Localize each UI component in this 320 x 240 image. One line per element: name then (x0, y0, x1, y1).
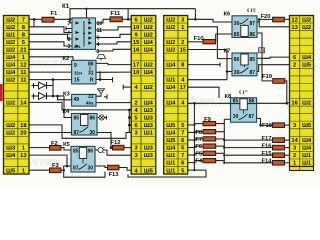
svg-text:Ш4: Ш4 (144, 70, 154, 76)
svg-text:Ш2: Ш2 (144, 32, 153, 38)
svg-text:Ш4: Ш4 (6, 70, 16, 76)
svg-text:F3: F3 (52, 163, 60, 169)
svg-text:Ш4: Ш4 (166, 85, 176, 91)
svg-text:Ш4: Ш4 (302, 55, 312, 61)
svg-text:12: 12 (20, 63, 26, 69)
svg-text:9: 9 (97, 36, 100, 42)
svg-text:85: 85 (73, 148, 79, 154)
svg-text:F6: F6 (195, 144, 203, 150)
svg-text:Ш2: Ш2 (302, 17, 311, 23)
svg-text:7: 7 (68, 21, 71, 27)
svg-text:1: 1 (68, 31, 71, 37)
svg-text:31н: 31н (74, 71, 82, 76)
svg-text:Ш5: Ш5 (302, 123, 312, 129)
svg-text:Ш3: Ш3 (144, 146, 154, 152)
svg-text:Ш3: Ш3 (144, 108, 154, 114)
svg-text:17: 17 (133, 63, 139, 69)
svg-text:85: 85 (249, 57, 255, 63)
svg-text:Ш2: Ш2 (302, 100, 311, 106)
svg-text:F11: F11 (111, 11, 121, 17)
svg-text:Ш2: Ш2 (144, 17, 153, 23)
svg-text:К3: К3 (63, 91, 71, 97)
svg-text:30: 30 (234, 70, 240, 76)
svg-text:Ш2: Ш2 (166, 25, 175, 31)
svg-text:87: 87 (73, 165, 79, 171)
svg-text:7: 7 (181, 153, 184, 159)
svg-text:30: 30 (89, 130, 95, 136)
svg-text:F10: F10 (194, 36, 204, 42)
svg-text:Ш2: Ш2 (166, 47, 175, 53)
svg-text:13: 13 (20, 153, 27, 159)
svg-text:30: 30 (234, 21, 240, 27)
svg-text:Ш1: Ш1 (166, 78, 176, 84)
svg-text:Ш4: Ш4 (6, 55, 16, 61)
svg-text:16: 16 (133, 47, 140, 53)
svg-text:12: 12 (291, 17, 297, 23)
svg-text:30: 30 (87, 165, 93, 171)
svg-text:К6: К6 (224, 11, 232, 17)
svg-text:Ш3: Ш3 (6, 146, 16, 152)
svg-text:86: 86 (249, 32, 255, 38)
svg-text:Ш4: Ш4 (144, 100, 154, 106)
svg-text:К5: К5 (63, 142, 71, 148)
svg-text:2: 2 (181, 40, 184, 46)
svg-text:7: 7 (181, 131, 184, 137)
svg-text:3: 3 (97, 49, 100, 55)
svg-text:F9: F9 (204, 117, 212, 123)
svg-text:10: 10 (97, 21, 103, 27)
svg-text:К7: К7 (224, 49, 231, 55)
svg-text:Ш2: Ш2 (6, 40, 15, 46)
svg-text:2: 2 (134, 100, 137, 106)
svg-text:20: 20 (20, 131, 26, 137)
svg-text:Ш2: Ш2 (144, 63, 153, 69)
svg-text:К8: К8 (225, 94, 233, 100)
svg-text:85: 85 (74, 115, 80, 121)
svg-text:Ш4: Ш4 (6, 63, 16, 69)
svg-text:87: 87 (249, 70, 255, 76)
svg-text:F12: F12 (111, 140, 121, 146)
svg-text:Ш4: Ш4 (6, 153, 16, 159)
svg-text:31: 31 (88, 70, 94, 76)
svg-text:F15: F15 (262, 151, 273, 157)
svg-text:F1: F1 (51, 11, 59, 17)
svg-text:Ш2: Ш2 (144, 85, 153, 91)
svg-text:87: 87 (249, 21, 255, 27)
svg-text:86: 86 (88, 61, 94, 67)
svg-text:F5: F5 (195, 151, 203, 157)
svg-text:49: 49 (74, 97, 80, 103)
svg-text:31: 31 (88, 94, 94, 100)
svg-text:Ш2: Ш2 (6, 100, 15, 106)
svg-text:Ш4: Ш4 (144, 47, 154, 53)
svg-text:30: 30 (233, 114, 239, 120)
svg-text:F14: F14 (262, 159, 273, 165)
svg-text:F18: F18 (262, 123, 273, 129)
svg-text:R: R (90, 77, 94, 83)
svg-text:15: 15 (133, 40, 140, 46)
svg-text:13: 13 (291, 25, 298, 31)
svg-text:Ш2: Ш2 (166, 17, 175, 23)
svg-text:К1: К1 (62, 3, 70, 10)
svg-text:Ш3: Ш3 (144, 115, 154, 121)
svg-text:Ш4: Ш4 (166, 100, 176, 106)
svg-text:Ш5: Ш5 (302, 63, 312, 69)
svg-text:F20: F20 (261, 14, 271, 20)
svg-text:Ш5: Ш5 (166, 138, 176, 144)
svg-text:Ш4: Ш4 (302, 138, 312, 144)
svg-text:Ш2: Ш2 (6, 131, 15, 137)
svg-text:Ш1: Ш1 (302, 153, 312, 159)
svg-text:Ш2: Ш2 (6, 78, 15, 84)
svg-text:86: 86 (89, 115, 95, 121)
svg-text:10: 10 (133, 25, 139, 31)
svg-text:Ш5: Ш5 (6, 168, 16, 174)
svg-text:К2: К2 (63, 56, 70, 62)
svg-text:17: 17 (180, 85, 186, 91)
svg-text:Ш4: Ш4 (166, 146, 176, 152)
svg-text:15: 15 (74, 77, 80, 83)
svg-text:16: 16 (291, 100, 298, 106)
svg-text:11: 11 (20, 70, 27, 76)
svg-text:86: 86 (87, 148, 93, 154)
svg-text:F17: F17 (262, 136, 272, 142)
svg-text:Ш2: Ш2 (6, 17, 15, 23)
svg-text:8: 8 (68, 37, 71, 43)
svg-text:Ш2: Ш2 (6, 47, 15, 53)
svg-text:Ш2: Ш2 (144, 25, 153, 31)
svg-text:87: 87 (74, 130, 80, 136)
svg-text:Ш2: Ш2 (6, 123, 15, 129)
svg-text:85: 85 (234, 32, 240, 38)
svg-text:11: 11 (20, 78, 27, 84)
svg-text:F16: F16 (262, 143, 273, 149)
svg-text:49а: 49а (86, 101, 94, 106)
svg-text:Ш1: Ш1 (166, 153, 176, 159)
svg-text:14: 14 (291, 138, 298, 144)
svg-text:14: 14 (20, 100, 27, 106)
svg-text:Ш5: Ш5 (144, 168, 154, 174)
svg-text:Ш4: Ш4 (166, 131, 176, 137)
svg-text:9: 9 (74, 63, 77, 69)
svg-text:Ш2: Ш2 (166, 40, 175, 46)
svg-text:Ш4: Ш4 (302, 146, 312, 152)
svg-text:2: 2 (293, 153, 296, 159)
svg-text:Ш2: Ш2 (302, 25, 311, 31)
svg-text:Ш4: Ш4 (144, 40, 154, 46)
svg-text:Ш3: Ш3 (144, 153, 154, 159)
svg-text:2: 2 (293, 63, 296, 69)
svg-text:2: 2 (88, 19, 91, 25)
svg-text:Ш1: Ш1 (166, 168, 176, 174)
svg-text:4: 4 (97, 42, 100, 48)
svg-text:7: 7 (22, 17, 25, 23)
svg-text:Ш1: Ш1 (166, 161, 176, 167)
svg-text:Ш5: Ш5 (166, 123, 176, 129)
svg-text:F19: F19 (262, 74, 273, 80)
svg-text:11: 11 (97, 28, 103, 34)
svg-text:F2: F2 (51, 141, 58, 147)
svg-text:86: 86 (234, 57, 240, 63)
svg-text:F13: F13 (109, 172, 120, 178)
svg-text:87: 87 (248, 114, 254, 120)
svg-text:XXL: XXL (74, 45, 82, 49)
svg-text:F7: F7 (195, 137, 202, 143)
svg-text:Ш1: Ш1 (302, 161, 312, 167)
svg-text:3: 3 (68, 44, 71, 50)
svg-text:Ш1: Ш1 (144, 131, 154, 137)
svg-text:Ш4: Ш4 (166, 63, 176, 69)
svg-text:К4: К4 (63, 109, 71, 115)
svg-text:Ш3: Ш3 (144, 123, 154, 129)
svg-text:18: 18 (20, 123, 27, 129)
svg-text:F4: F4 (195, 159, 203, 165)
svg-text:15: 15 (180, 47, 187, 53)
svg-text:10: 10 (133, 70, 139, 76)
svg-text:F8: F8 (195, 130, 203, 136)
svg-text:Ш1: Ш1 (6, 32, 16, 38)
svg-text:Ш2: Ш2 (6, 25, 15, 31)
svg-text:21: 21 (20, 47, 27, 53)
